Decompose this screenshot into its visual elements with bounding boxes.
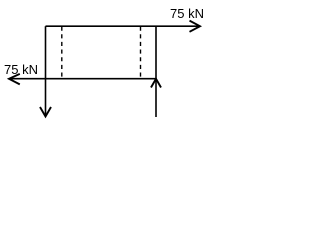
dashed section line left: [61, 27, 63, 79]
svg-text:75 kN: 75 kN: [4, 62, 38, 77]
svg-text:75 kN: 75 kN: [170, 6, 204, 21]
shear arrow up (shaft): [155, 79, 157, 117]
element top edge / force line: [46, 25, 199, 27]
arrowhead left (75 kN): [9, 74, 20, 85]
arrowhead up: [151, 79, 161, 88]
element right edge: [155, 26, 157, 78]
element left edge + shear arrow down: [45, 26, 47, 115]
element bottom edge / force line: [11, 78, 156, 80]
dashed section line right: [140, 27, 142, 79]
arrowhead right (75 kN): [190, 21, 201, 32]
arrowhead down: [40, 107, 51, 117]
